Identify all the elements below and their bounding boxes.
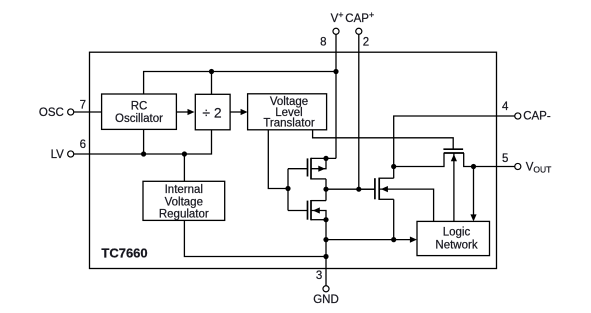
svg-text:Internal: Internal <box>165 184 203 196</box>
svg-text:Oscillator: Oscillator <box>115 113 163 125</box>
svg-text:Translator: Translator <box>263 118 315 130</box>
wire RC Oscillator top to V+ rail <box>144 72 336 95</box>
svg-text:LV: LV <box>51 149 65 161</box>
wire drain node to CAP+ and Q3 gate <box>326 188 375 190</box>
wire Q3 drain to CAP- pin 4 <box>394 116 497 178</box>
svg-text:4: 4 <box>502 101 509 113</box>
wire divide-by-2 to Voltage Level Translator <box>229 111 242 113</box>
junction Q3 drain / Q4 <box>391 164 396 169</box>
wire VOUT pin lead <box>497 166 515 168</box>
transistor Q3 N-channel <box>359 178 434 222</box>
wire V+ pin 8 rail <box>335 35 337 159</box>
svg-text:VOUT: VOUT <box>526 162 552 175</box>
svg-text:OSC: OSC <box>39 107 64 119</box>
wire LV input to divide-by-2 bottom <box>71 130 212 154</box>
transistor Q1 P-channel <box>288 158 336 180</box>
arrowhead into Logic Network top <box>470 214 476 221</box>
junction RC bottom / LV line <box>141 151 146 156</box>
svg-text:CAP+: CAP+ <box>345 10 374 25</box>
wire common gate vertical <box>287 169 289 211</box>
pin CAP+ terminal <box>356 28 362 34</box>
junction GND / IVR line <box>323 254 328 259</box>
wire VOUT node to Logic Network top <box>473 167 475 216</box>
junction top rail / V+ <box>333 69 338 74</box>
svg-text:8: 8 <box>320 37 326 49</box>
transistor Q2 N-channel <box>288 200 326 220</box>
arrowhead into Voltage Level Translator <box>241 109 248 115</box>
junction VLT / gates <box>285 186 290 191</box>
block Voltage Level Translator <box>248 94 327 130</box>
pin CAP- terminal <box>515 113 521 119</box>
svg-text:Network: Network <box>435 240 477 252</box>
wire Q3 source down to logic line <box>393 199 395 239</box>
wire RC Oscillator to divide-by-2 <box>176 111 188 113</box>
wire LV line to Internal Voltage Regulator top <box>183 154 185 181</box>
wire Voltage Level Translator to Q4 gate <box>313 130 454 149</box>
chip outline TC7660 <box>90 52 497 268</box>
wire CAP- pin lead <box>497 115 515 117</box>
svg-text:2: 2 <box>363 37 369 49</box>
svg-text:÷ 2: ÷ 2 <box>202 105 222 121</box>
wire Q1-Q2 drain junction <box>325 179 327 201</box>
wire OSC input to RC Oscillator <box>71 111 102 113</box>
svg-text:Regulator: Regulator <box>159 209 209 221</box>
svg-text:5: 5 <box>502 153 508 165</box>
pin LV terminal <box>68 151 74 157</box>
wire RC Oscillator bottom to LV line <box>143 129 145 154</box>
junction VOUT node <box>471 164 476 169</box>
junction divide-by-2 top rail <box>209 69 214 74</box>
block divide-by-2 <box>195 94 230 130</box>
svg-text:RC: RC <box>131 101 148 113</box>
junction Q3 source / logic line <box>391 237 396 242</box>
pin VOUT terminal <box>515 163 521 169</box>
wire divide-by-2 top to top rail <box>211 72 213 95</box>
wire Internal Voltage Regulator bottom to GND line <box>184 220 326 256</box>
block Logic Network <box>417 221 490 255</box>
pin GND terminal <box>323 286 329 292</box>
pin OSC terminal <box>68 109 74 115</box>
svg-text:6: 6 <box>80 139 86 151</box>
transistor Q4 N-channel <box>394 149 497 221</box>
junction drain node <box>323 187 328 192</box>
svg-text:CAP-: CAP- <box>523 111 551 123</box>
junction IVR / LV line <box>182 151 187 156</box>
wire GND node to Logic Network <box>326 239 411 241</box>
svg-text:Voltage: Voltage <box>165 196 203 208</box>
svg-text:V+: V+ <box>331 10 344 25</box>
wire Q2 source to GND pin 3 <box>325 220 327 286</box>
svg-text:7: 7 <box>80 99 86 111</box>
arrowhead into Logic Network left <box>410 237 417 243</box>
block RC Oscillator <box>102 94 177 129</box>
block Internal Voltage Regulator <box>143 181 225 220</box>
arrowhead into divide-by-2 <box>188 109 195 115</box>
wire CAP+ pin 2 rail <box>358 35 360 190</box>
svg-text:TC7660: TC7660 <box>101 245 147 260</box>
svg-text:GND: GND <box>313 294 339 306</box>
wire Voltage Level Translator to CMOS pair gates <box>268 130 288 189</box>
svg-text:Logic: Logic <box>443 227 471 239</box>
junction Q1 body source <box>323 156 328 161</box>
svg-text:3: 3 <box>316 270 322 282</box>
junction GND / logic line <box>323 237 328 242</box>
junction CAP+ node <box>356 187 361 192</box>
junction Q2 body source <box>323 217 328 222</box>
pin V+ terminal <box>333 28 339 34</box>
